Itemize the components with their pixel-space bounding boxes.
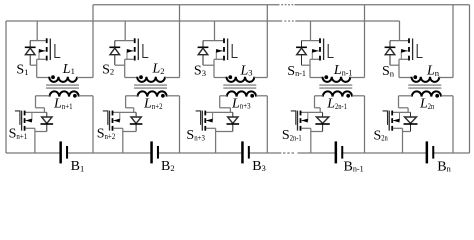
wire: source of S3 down to L3 <box>213 59 215 77</box>
battery B2 <box>150 141 159 163</box>
diode: body diode of S2n <box>403 112 418 131</box>
wire: second bus B <box>6 20 400 22</box>
label L1 <box>62 62 75 77</box>
wire: L1 right terminal up to bus A <box>92 5 94 78</box>
magnetic core between L2 and Ln+2 <box>134 85 167 88</box>
diode: body diode of S2n-1 <box>311 112 330 131</box>
wire: source of Sn down to Ln <box>398 59 400 77</box>
diode: body diode of Sn+1 <box>35 112 53 131</box>
label Ln+3 <box>231 96 251 111</box>
wire: drain stub of Sn from bus B <box>399 21 401 41</box>
label L3 <box>240 63 253 78</box>
label Sn+2 <box>97 127 116 142</box>
wire: Ln+2 right terminal down to rail <box>179 96 181 153</box>
inductor Ln (upper winding) <box>399 75 453 82</box>
label S3 <box>194 64 206 79</box>
label Sn+1 <box>9 127 28 142</box>
label Bn-1 <box>344 159 364 174</box>
wire: drain stub of S2 from bus B <box>124 21 126 41</box>
diode: body diode of Sn-1 <box>296 41 310 66</box>
magnetic core between Ln and L2n <box>408 85 441 88</box>
battery B1 <box>59 141 68 163</box>
label S2 <box>102 62 114 77</box>
wire: L2n right terminal down to rail <box>452 96 454 153</box>
wire: source of Sn+2 down to rail <box>122 128 124 153</box>
label S2n <box>374 128 389 143</box>
label S1 <box>16 63 28 78</box>
inductor Ln+2 (lower winding) <box>126 91 180 97</box>
wire: source of S2n-1 down to rail <box>310 128 312 153</box>
wire: source of Sn-1 down to Ln-1 <box>309 59 311 77</box>
wire: drain stub of S1 from bus B <box>36 21 38 41</box>
inductor L1 (upper winding) <box>37 75 93 82</box>
inductor L3 (upper winding) <box>214 75 267 82</box>
label Sn+3 <box>186 128 205 143</box>
diode: body diode of Sn+2 <box>123 112 143 131</box>
magnetic core between L3 and Ln+3 <box>223 85 256 88</box>
wire: Ln-1 right terminal up to bus A <box>364 5 366 78</box>
label Ln+2 <box>143 97 163 112</box>
magnetic core between L1 and Ln+1 <box>46 85 79 88</box>
label Sn-1 <box>287 64 306 79</box>
wire: source of Sn+1 down to rail <box>34 128 36 153</box>
wire: left edge vertical (bus B to B1 negative) <box>5 21 7 153</box>
label Ln-1 <box>333 63 353 78</box>
diode: body diode of Sn <box>385 41 399 66</box>
transistor S2 (upper MOSFET) <box>115 38 149 60</box>
wire: L2n-1 right terminal down to rail <box>364 96 366 153</box>
label B3 <box>252 159 266 174</box>
label L2n-1 <box>326 97 347 112</box>
wire: Ln+3 right terminal down to rail <box>266 96 268 153</box>
transistor S2n-1 (lower MOSFET) <box>291 111 323 131</box>
diode: body diode of S3 <box>198 41 214 66</box>
label Sn <box>382 64 395 79</box>
wire: L2 right terminal up to bus A <box>179 5 181 78</box>
wire: bottom battery-string rail <box>6 152 470 154</box>
label S2n-1 <box>282 128 302 143</box>
label B2 <box>161 159 175 174</box>
transistor Sn+3 (lower MOSFET) <box>196 111 233 131</box>
label Bn <box>437 159 451 174</box>
wire: L2n left terminal to S2n drain (staircase) <box>399 96 409 113</box>
battery Bn <box>426 141 435 163</box>
inductor L2n-1 (lower winding) <box>315 91 365 97</box>
transistor S2n (lower MOSFET) <box>383 111 411 131</box>
label L2n <box>419 97 435 112</box>
label L2 <box>152 62 165 77</box>
label Ln <box>426 64 440 79</box>
wire: Ln+3 left terminal to Sn+3 drain (staircase) <box>220 96 231 113</box>
diode: body diode of S2 <box>109 41 124 66</box>
diode: body diode of Sn+3 <box>216 112 240 131</box>
transistor Sn-1 (upper MOSFET) <box>302 38 334 60</box>
label Ln+1 <box>53 97 73 112</box>
diode: body diode of S1 <box>25 41 37 66</box>
label B1 <box>71 159 85 174</box>
wire: drain stub of S3 from bus B <box>214 21 216 41</box>
battery B3 <box>241 141 250 163</box>
transistor Sn (upper MOSFET) <box>390 38 423 60</box>
wire: Ln+1 right terminal down to rail <box>92 96 94 153</box>
inductor Ln+1 (lower winding) <box>36 91 94 97</box>
battery Bn-1 <box>335 141 344 163</box>
wire: drain stub of Sn-1 from bus B <box>310 21 312 41</box>
wire: Ln+2 left terminal to Sn+2 drain (staircase) <box>126 96 134 113</box>
wire: Ln+1 left terminal to Sn+1 drain (staircase) <box>36 96 45 113</box>
inductor L2 (upper winding) <box>125 75 180 82</box>
wire: source of S1 down to L1 <box>36 59 38 77</box>
transistor S1 (upper MOSFET) <box>30 38 60 60</box>
wire: source of Sn+3 down to rail <box>215 128 217 153</box>
transistor Sn+1 (lower MOSFET) <box>15 111 47 131</box>
wire: source of S2n down to rail <box>402 128 404 153</box>
transistor S3 (upper MOSFET) <box>203 38 238 60</box>
transistor Sn+2 (lower MOSFET) <box>103 111 136 131</box>
wire: right edge vertical (bus A to Bn positive) <box>469 5 471 153</box>
wire: source of S2 down to L2 <box>124 59 126 77</box>
inductor Ln+3 (lower winding) <box>220 91 268 97</box>
inductor Ln-1 (upper winding) <box>310 75 365 82</box>
inductor L2n (lower winding) <box>399 91 454 97</box>
wire: L2n-1 left terminal to S2n-1 drain (staircase) <box>315 96 321 113</box>
wire: Ln right terminal up to bus A <box>452 5 454 78</box>
wire: L3 right terminal up to bus A <box>266 5 268 78</box>
wire: top bus A <box>93 4 470 6</box>
magnetic core between Ln-1 and L2n-1 <box>319 85 352 88</box>
